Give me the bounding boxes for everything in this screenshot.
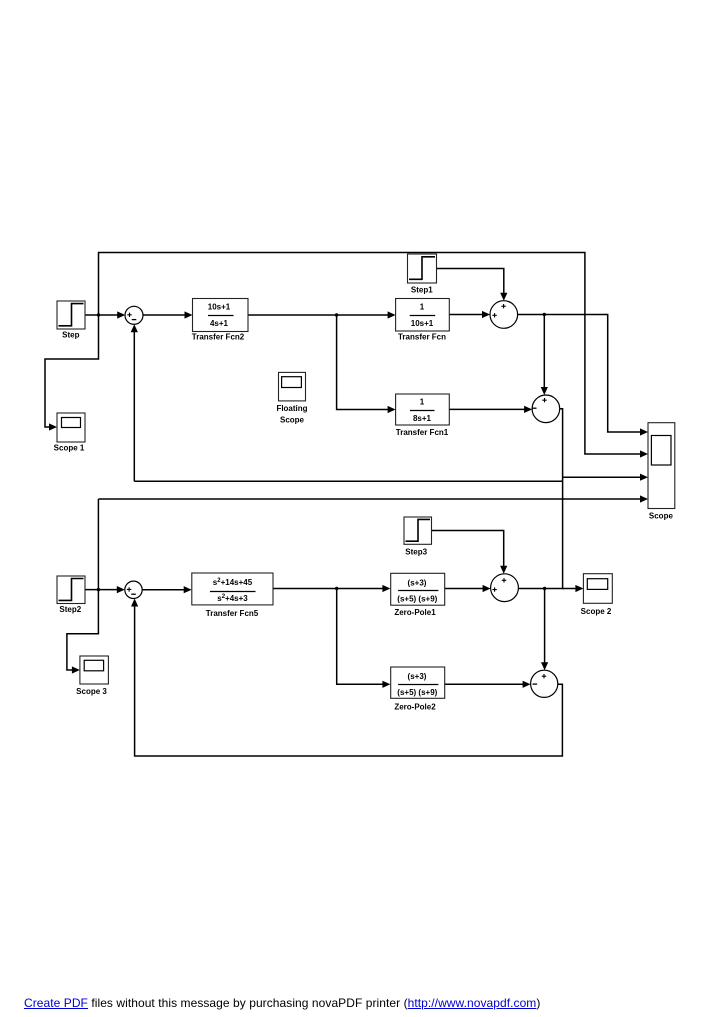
transfer fcn block Transfer Fcn [396,299,450,342]
svg-text:Step: Step [62,330,79,339]
sum Sum2 [490,301,518,329]
SUM JUNCTIONS [125,301,560,698]
arrow into Sum3 left [524,406,532,413]
wire Step1 down to Sum2 top [437,269,504,294]
wire Sum5 out bottom feedback loop to SumB1 [135,606,563,756]
arrow into Scope2 [575,585,583,592]
scope block Scope (4 inputs) [648,423,675,521]
svg-text:(s+5) (s+9): (s+5) (s+9) [397,688,437,697]
arrow into Scope in4 [640,495,648,502]
arrow up into Sum1 bottom [131,324,138,332]
svg-text:10s+1: 10s+1 [411,319,434,328]
zero-pole block Zero-Pole2 [391,667,445,712]
scope block Scope1 [54,413,85,453]
arrow into Sum1 [117,311,125,318]
svg-text:Step1: Step1 [411,285,433,294]
svg-text:Scope: Scope [280,416,305,425]
arrow into Transfer Fcn [388,311,396,318]
BLOCKS [54,254,675,712]
arrow down into Sum5 top [541,662,548,670]
sum Sum4 [491,574,519,602]
wire Transfer Fcn out to Sum2 [449,314,483,316]
JUNCTION DOTS [97,313,547,592]
scope block Floating Scope [276,372,307,424]
junction Sum4 output branch [543,587,546,590]
svg-text:Scope: Scope [649,512,674,521]
wire Sum1 to Transfer Fcn2 [143,314,185,316]
transfer fcn block Transfer Fcn5 [192,573,273,618]
transfer fcn block Transfer Fcn2 [192,299,248,342]
svg-text:Step2: Step2 [59,605,81,614]
step block Step [57,301,85,339]
junction Sum2 output branch [543,313,546,316]
wire feedback into Sum1 bottom [133,332,135,482]
footer novaPDF message [24,996,540,1010]
wire Step2 to SumB1 [85,589,118,591]
arrow into SumB1 [117,586,125,593]
wire Transfer Fcn1 out to Sum3 [449,408,525,410]
wire Zero-Pole1 out to Sum4 [445,588,484,590]
wire branch Sum2 out down to Sum3 top [543,315,545,389]
svg-text:Transfer Fcn: Transfer Fcn [398,332,446,341]
arrow up into SumB1 bottom [131,599,138,607]
wire Sum2 out right, down to Scope in1 [518,315,641,433]
ARROWHEADS [49,293,648,688]
arrow into Scope1 [49,423,57,430]
svg-text:Step3: Step3 [405,548,427,557]
arrow into Sum2 left [482,311,490,318]
wire branch down-left to Scope1 [45,315,99,427]
arrow down into Sum4 top [500,566,507,574]
wire to Scope in3 [563,476,641,478]
svg-text:Zero-Pole2: Zero-Pole2 [394,703,436,712]
svg-text:8s+1: 8s+1 [413,414,432,423]
arrow into Transfer Fcn2 [185,311,193,318]
sum Sum5 [531,670,558,697]
wire Step2 node down to Scope3 [67,499,99,670]
svg-text:Transfer Fcn2: Transfer Fcn2 [192,333,245,342]
svg-text:(s+5) (s+9): (s+5) (s+9) [397,594,437,603]
zero-pole block Zero-Pole1 [391,573,445,617]
svg-text:Scope 1: Scope 1 [54,444,85,453]
transfer fcn block Transfer Fcn1 [396,394,450,437]
wire Zero-Pole2 out to Sum5 [445,683,524,685]
svg-text:Zero-Pole1: Zero-Pole1 [394,608,436,617]
step block Step2 [57,576,85,614]
junction Step output node [97,313,100,316]
arrow into Scope in1 [640,428,648,435]
wire Step to Sum1 [85,314,118,316]
sum Sum3 [532,395,560,423]
arrow into Sum5 left [523,681,531,688]
sum SumB1 [125,581,142,598]
junction TF2 output branch [335,313,338,316]
step block Step3 [404,517,432,557]
arrow down into Sum3 top [541,387,548,395]
svg-text:Scope 2: Scope 2 [581,607,612,616]
arrow into Sum4 left [483,585,491,592]
wire Sum4 out to Scope2 [518,588,576,590]
sum Sum1 [125,306,143,324]
svg-text:(s+3): (s+3) [408,672,427,681]
wire branch Sum4 out down to Sum5 top [544,589,546,664]
wire feedback rail to Sum1 [134,480,562,482]
wire branch down to Zero-Pole2 [337,589,384,685]
svg-text:Transfer Fcn5: Transfer Fcn5 [206,609,259,618]
svg-text:Transfer Fcn1: Transfer Fcn1 [396,428,449,437]
junction TF5 output branch [335,587,338,590]
arrow into Transfer Fcn1 [388,406,396,413]
svg-text:10s+1: 10s+1 [208,303,231,312]
svg-text:4s+1: 4s+1 [210,319,229,328]
wire Transfer Fcn5 out to Zero-Pole1 [273,588,383,590]
scope block Scope3 [76,656,108,696]
arrow into Scope in2 [640,450,648,457]
svg-text:1: 1 [420,303,425,312]
svg-text:1: 1 [420,398,425,407]
svg-text:Scope 3: Scope 3 [76,687,107,696]
wire Step3 down to Sum4 top [432,531,504,567]
arrow down into Sum2 top [500,293,507,301]
arrow into Scope in3 [640,474,648,481]
arrow into Transfer Fcn5 [184,586,192,593]
wire branch: node up to top rail, across, down to Scope in2 [99,253,642,455]
step block Step1 [408,254,437,294]
arrow into Scope3 [72,666,80,673]
junction Step2 output node [97,588,100,591]
wire Transfer Fcn2 out to Transfer Fcn [248,314,389,316]
arrow into Zero-Pole1 [382,585,390,592]
wire branch down to Transfer Fcn1 [337,315,389,410]
wire SumB1 to Transfer Fcn5 [142,589,185,591]
arrow into Zero-Pole2 [382,681,390,688]
wire Sum3 out down long vertical [560,409,563,589]
svg-text:Floating: Floating [276,404,307,413]
wire Step2 rail to Scope in4 [98,498,641,500]
scope block Scope2 [581,574,613,616]
svg-text:(s+3): (s+3) [408,579,427,588]
